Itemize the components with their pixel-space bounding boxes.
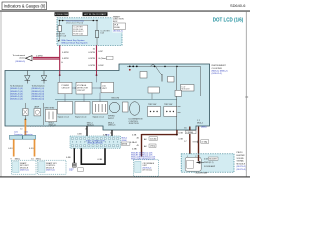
svg-text:0.3B: 0.3B <box>66 157 71 159</box>
svg-text:Without Smart Key System: Without Smart Key System <box>61 42 87 45</box>
svg-text:TRIP SW: TRIP SW <box>148 104 156 106</box>
svg-text:(M06-1): (M06-1) <box>49 125 57 127</box>
svg-text:G: G <box>61 62 63 64</box>
svg-text:(75C): (75C) <box>150 146 156 148</box>
svg-text:CIRCUIT: CIRCUIT <box>77 90 86 92</box>
svg-text:4 (M06): 4 (M06) <box>186 132 193 134</box>
svg-text:INPUT: INPUT <box>108 118 115 120</box>
svg-text:Signal circuit: Signal circuit <box>58 115 70 118</box>
svg-text:SIGNAL: SIGNAL <box>237 160 245 163</box>
svg-text:With Smart Key System: With Smart Key System <box>61 39 84 42</box>
svg-text:RHEOSTAT: RHEOSTAT <box>44 106 55 109</box>
svg-text:0.3B: 0.3B <box>179 132 184 134</box>
svg-text:JUNCTION: JUNCTION <box>129 123 140 125</box>
svg-text:M06-2: M06-2 <box>197 123 204 125</box>
svg-text:TRIP SW: TRIP SW <box>164 104 172 106</box>
svg-text:(M33): (M33) <box>122 144 128 146</box>
svg-text:BUZZER: BUZZER <box>237 155 246 157</box>
svg-text:(SD102-4): (SD102-4) <box>212 73 222 75</box>
svg-text:(SD640-5): (SD640-5) <box>15 61 25 63</box>
svg-text:cluster: cluster <box>19 56 25 59</box>
svg-text:0.3O: 0.3O <box>8 148 13 150</box>
svg-text:MODULE: MODULE <box>237 163 246 165</box>
svg-text:BOX: BOX <box>113 21 118 23</box>
svg-text:SD640-6: SD640-6 <box>230 3 245 8</box>
svg-text:(SD170-1): (SD170-1) <box>20 170 29 172</box>
svg-text:0.5PW: 0.5PW <box>36 55 43 57</box>
svg-text:(M06-2): (M06-2) <box>108 125 116 127</box>
svg-text:To illumination: To illumination <box>32 85 45 88</box>
svg-text:FUSE: FUSE <box>114 27 120 29</box>
svg-text:Signal circuit: Signal circuit <box>93 115 105 118</box>
svg-text:0.5PW: 0.5PW <box>62 52 69 54</box>
svg-text:0.3B: 0.3B <box>103 134 108 136</box>
svg-text:MODULE: MODULE <box>182 89 191 91</box>
svg-text:To illumination: To illumination <box>10 85 23 88</box>
svg-text:0.3B: 0.3B <box>179 138 184 140</box>
svg-text:BUZZER AMP: BUZZER AMP <box>196 172 209 175</box>
svg-text:0.5P: 0.5P <box>98 51 103 53</box>
svg-text:(SD170-3): (SD170-3) <box>237 169 247 171</box>
svg-text:(Instrument Panel): (Instrument Panel) <box>66 22 83 25</box>
svg-text:0.3Br/O: 0.3Br/O <box>130 141 138 144</box>
svg-text:0.3O: 0.3O <box>29 148 34 150</box>
svg-text:(SD170-2): (SD170-2) <box>237 166 247 168</box>
svg-text:0.3B: 0.3B <box>132 135 137 137</box>
svg-text:0.5PW: 0.5PW <box>62 58 69 60</box>
svg-text:LAMP: LAMP <box>34 106 40 109</box>
svg-text:PIEZO: PIEZO <box>237 152 243 154</box>
svg-text:To instrument: To instrument <box>13 54 26 57</box>
svg-text:(SD170-2): (SD170-2) <box>46 170 55 172</box>
svg-text:MICOM: MICOM <box>112 98 120 100</box>
svg-text:(M06): (M06) <box>201 127 207 129</box>
svg-text:(M / D01-1): (M / D01-1) <box>143 170 153 172</box>
svg-text:0.3B: 0.3B <box>77 134 82 136</box>
svg-text:0.5PW: 0.5PW <box>88 65 95 67</box>
svg-text:SOUND: SOUND <box>237 158 245 160</box>
svg-text:FUSE 10A: FUSE 10A <box>73 33 83 36</box>
svg-text:DOT LCD (1/6): DOT LCD (1/6) <box>213 17 244 23</box>
svg-text:(C146): (C146) <box>150 139 157 141</box>
svg-text:(SD640-5) (4): (SD640-5) (4) <box>10 99 23 101</box>
svg-text:(SD100-2): (SD100-2) <box>113 31 123 33</box>
svg-text:(7.5A): (7.5A) <box>202 141 208 144</box>
svg-text:(1.2): (1.2) <box>210 162 214 164</box>
svg-text:0.5PW: 0.5PW <box>88 52 95 54</box>
svg-text:Signal circuit: Signal circuit <box>75 115 87 118</box>
svg-text:BUZZER: BUZZER <box>209 159 217 161</box>
svg-text:Indicators & Gauges (8): Indicators & Gauges (8) <box>4 4 46 9</box>
svg-text:G (Start): G (Start) <box>98 57 107 60</box>
svg-text:HOT AT ALL TIMES: HOT AT ALL TIMES <box>55 13 68 16</box>
svg-text:(M06-1): (M06-1) <box>87 125 95 127</box>
svg-text:CIRCUIT: CIRCUIT <box>62 87 71 89</box>
svg-text:G07: G07 <box>69 169 74 172</box>
svg-text:0.3Br: 0.3Br <box>132 147 137 150</box>
svg-text:(SD640-6) (4): (SD640-6) (4) <box>32 99 45 101</box>
svg-text:0.5PW: 0.5PW <box>88 58 95 60</box>
svg-text:UNIT: UNIT <box>102 88 107 90</box>
svg-text:(M33-A) (M33-B): (M33-A) (M33-B) <box>87 142 102 145</box>
svg-text:0.3B: 0.3B <box>98 159 103 161</box>
svg-text:FUSE 10A: FUSE 10A <box>57 35 67 38</box>
svg-text:HOT IN ON OR START: HOT IN ON OR START <box>84 13 107 16</box>
